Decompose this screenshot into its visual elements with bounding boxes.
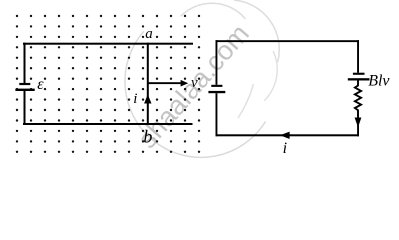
wire: left circuit left side upper xyxy=(24,43,26,84)
battery source: short plate (left) xyxy=(211,85,222,87)
conductor rod ab xyxy=(147,43,149,125)
watermark logo circle left xyxy=(181,3,246,19)
wire: right circuit bottom xyxy=(216,134,360,136)
current arrow i on bottom wire xyxy=(280,132,290,139)
svg-text:i: i xyxy=(283,140,287,157)
watermark text shaalaa.com xyxy=(132,19,255,154)
battery source: long plate (left) xyxy=(208,91,225,93)
battery cell EMF: long plate xyxy=(15,89,34,91)
label i on rod xyxy=(133,91,137,107)
current arrowhead down on right side xyxy=(355,118,362,128)
label i bottom xyxy=(283,140,287,157)
battery cell EMF: short plate xyxy=(19,83,30,85)
node b label xyxy=(143,126,152,146)
wire: right circuit top xyxy=(216,40,360,42)
watermark circle outer xyxy=(125,31,266,157)
resistor zigzag xyxy=(355,80,361,116)
wire: left circuit bottom rail b xyxy=(23,123,193,125)
wire: left circuit left side lower xyxy=(24,91,26,125)
grid dots xyxy=(16,15,200,153)
label v xyxy=(191,75,198,91)
node a label xyxy=(145,26,153,42)
velocity arrow v xyxy=(148,80,188,87)
battery Blv: short plate xyxy=(353,73,365,75)
svg-text:Blv: Blv xyxy=(368,73,390,90)
svg-text:a: a xyxy=(145,26,153,42)
current arrowhead i on rod xyxy=(144,94,151,103)
watermark circle middle arc xyxy=(264,51,277,101)
watermark logo circle right xyxy=(234,0,279,62)
wire: right circuit left side upper xyxy=(216,40,218,85)
svg-text:ε: ε xyxy=(37,76,44,93)
svg-text:b: b xyxy=(143,126,152,146)
wire: left circuit top rail a xyxy=(23,43,193,45)
wire: right circuit left side lower xyxy=(216,93,218,136)
label epsilon (EMF value) xyxy=(37,76,44,93)
svg-text:i: i xyxy=(133,91,137,107)
label Blv xyxy=(368,73,390,90)
wire: right circuit right side upper xyxy=(357,40,359,72)
wire: right side below resistor xyxy=(357,115,359,136)
battery Blv: long plate xyxy=(348,78,370,80)
watermark swirl arc xyxy=(238,84,254,118)
svg-text:v: v xyxy=(191,75,198,91)
